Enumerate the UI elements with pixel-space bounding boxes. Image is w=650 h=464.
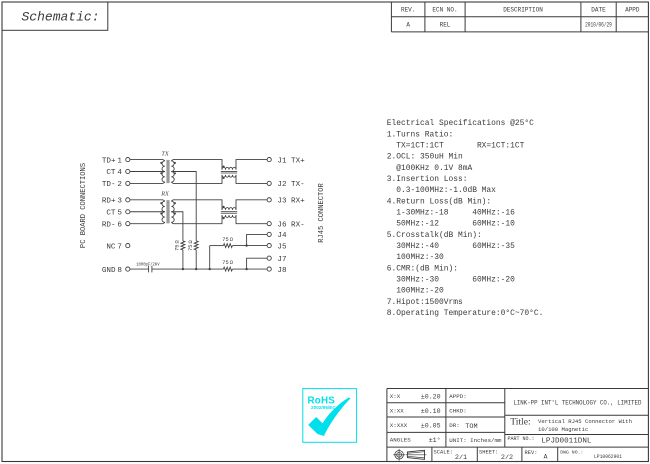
choke L1 phase dots: [223, 166, 225, 180]
transformer T2 (RX) windings and core: [162, 200, 174, 223]
wire transformer secondary bottom to choke: [171, 215, 222, 224]
svg-text:7: 7: [117, 243, 122, 251]
svg-text:J7: J7: [277, 256, 286, 264]
resistor R2 75 Ohm (TX center tap to GND): [194, 241, 198, 269]
svg-text:1-30MHz:-18 40MHz:-16: 1-30MHz:-18 40MHz:-16: [387, 209, 515, 218]
svg-text:Electrical Specifications @25°: Electrical Specifications @25°C: [387, 119, 534, 128]
pin J1 terminal circle: [267, 158, 271, 162]
svg-text:PART NO.:: PART NO.:: [508, 436, 535, 442]
wire choke L2 to pin J3: [236, 200, 267, 210]
svg-text:1.Turns Ratio:: 1.Turns Ratio:: [387, 130, 453, 139]
svg-text:100MHz:-20: 100MHz:-20: [387, 287, 444, 296]
pin J3 label: [277, 198, 305, 206]
svg-text:J8: J8: [277, 267, 287, 275]
svg-text:1000pF/2KV: 1000pF/2KV: [136, 262, 160, 267]
svg-text:75 Ω: 75 Ω: [188, 239, 194, 250]
pin 5 (CT) label: [106, 209, 122, 217]
svg-text:TD-: TD-: [102, 181, 116, 189]
svg-text:0.3-100MHz:-1.0dB Max: 0.3-100MHz:-1.0dB Max: [387, 186, 496, 195]
wire transformer secondary top to choke: [171, 160, 222, 170]
svg-text:±1°: ±1°: [429, 436, 441, 444]
svg-text:REV:: REV:: [525, 450, 538, 456]
svg-text:@100KHz 0.1V 8mA: @100KHz 0.1V 8mA: [387, 164, 473, 173]
pin J6 terminal circle: [267, 222, 271, 226]
svg-text:4: 4: [117, 169, 122, 177]
svg-text:75 Ω: 75 Ω: [222, 260, 233, 266]
pin J3 terminal circle: [267, 198, 271, 202]
svg-text:ANGLES: ANGLES: [390, 437, 411, 444]
svg-text:DESCRIPTION: DESCRIPTION: [503, 7, 543, 14]
sheet cell: [479, 450, 513, 463]
svg-text:DATE: DATE: [591, 7, 606, 14]
svg-text:2/1: 2/1: [455, 454, 467, 462]
svg-text:75 Ω: 75 Ω: [175, 239, 181, 250]
wire choke L1 to pin J2: [236, 175, 267, 184]
resistor R4 75 Ohm (in ground rail to J8): [223, 267, 232, 271]
pin 2 (TD-) label: [102, 181, 123, 189]
svg-text:CT: CT: [106, 169, 116, 177]
resistor R3 75 Ohm (to pins J4/J5): [223, 244, 232, 248]
pin J5 terminal circle: [267, 244, 271, 248]
rev cell: [525, 450, 548, 461]
svg-text:RJ45 CONNECTOR: RJ45 CONNECTOR: [318, 182, 326, 242]
choke L2 phase dots: [223, 206, 225, 220]
svg-text:Title:: Title:: [510, 417, 530, 428]
svg-text:50MHz:-12 60MHz:-10: 50MHz:-12 60MHz:-10: [387, 220, 515, 229]
pin 3 (RD+) label: [102, 198, 123, 206]
resistor R1 75 Ohm (RX center tap to GND): [181, 241, 185, 269]
pin J2 terminal circle: [267, 181, 271, 185]
electrical specifications text block: [387, 119, 544, 318]
svg-text:2: 2: [117, 181, 122, 189]
tolerance values column: [421, 393, 441, 444]
svg-text:Schematic:: Schematic:: [22, 10, 100, 25]
svg-text:RD+: RD+: [102, 198, 116, 206]
pin J5 label: [277, 243, 287, 251]
wire pin to transformer primary top: [130, 199, 163, 201]
svg-text:SCALE:: SCALE:: [434, 450, 453, 456]
pin J4 label: [277, 232, 287, 240]
wire GND pin 8 to capacitor: [130, 268, 149, 270]
wire pin to transformer primary bottom: [130, 223, 163, 225]
pin 3 terminal circle: [126, 198, 130, 202]
svg-text:J5: J5: [277, 243, 287, 251]
svg-text:REL: REL: [440, 22, 451, 29]
svg-text:100MHz:-30: 100MHz:-30: [387, 253, 444, 262]
svg-text:10/100 Magnetic: 10/100 Magnetic: [538, 426, 588, 433]
svg-text:5.Crosstalk(dB Min):: 5.Crosstalk(dB Min):: [387, 231, 482, 240]
approval labels column: [449, 393, 502, 444]
pin J8 terminal circle: [267, 267, 271, 271]
revision table row A: [406, 22, 611, 29]
svg-text:1: 1: [117, 157, 122, 165]
pin J6 label: [277, 221, 304, 229]
svg-text:LPJD0011DNL: LPJD0011DNL: [541, 438, 592, 446]
pin 1 (TD+) label: [102, 157, 123, 165]
wire resistor R3 to pin J5: [232, 245, 267, 247]
wire choke L2 to pin J6: [236, 215, 267, 224]
wire pin to transformer primary top: [130, 159, 163, 161]
pin 8 terminal circle: [126, 267, 130, 271]
wire TX secondary center tap to node: [171, 172, 196, 241]
svg-text:TX=1CT:1CT RX=1CT:1CT: TX=1CT:1CT RX=1CT:1CT: [387, 142, 525, 151]
pin 7 terminal circle: [126, 244, 130, 248]
svg-text:LP10062901: LP10062901: [594, 454, 622, 460]
common-mode choke L2 (RX) windings and core: [221, 208, 237, 218]
svg-text:J6 RX-: J6 RX-: [277, 221, 304, 229]
svg-text:ECN NO.: ECN NO.: [432, 7, 457, 14]
svg-text:TX: TX: [161, 150, 168, 157]
svg-text:30MHz:-40 60MHz:-35: 30MHz:-40 60MHz:-35: [387, 242, 515, 251]
transformer T2 phase dots: [160, 202, 176, 215]
wire pin to transformer primary center tap: [130, 171, 165, 173]
svg-text:CHKD:: CHKD:: [449, 408, 466, 415]
pin 4 terminal circle: [126, 169, 130, 173]
svg-text:2002/95/EC: 2002/95/EC: [311, 405, 336, 410]
pin 6 (RD-) label: [102, 221, 123, 229]
svg-text:J4: J4: [277, 232, 287, 240]
svg-text:GND: GND: [102, 267, 116, 275]
svg-text:±0.05: ±0.05: [421, 422, 441, 429]
svg-text:UNIT: Inches/mm: UNIT: Inches/mm: [449, 437, 502, 444]
title block grid lines: [387, 389, 649, 462]
svg-text:J2 TX-: J2 TX-: [277, 181, 304, 189]
svg-text:30MHz:-30 60MHz:-20: 30MHz:-30 60MHz:-20: [387, 275, 515, 284]
dwg no cell: [560, 449, 622, 460]
third-angle projection symbol: [393, 449, 426, 461]
pin 4 (CT) label: [106, 169, 122, 177]
RoHS checkmark: [308, 398, 350, 437]
wire choke L1 to pin J1: [236, 160, 267, 170]
wire pin to transformer primary bottom: [130, 182, 163, 184]
RoHS logo box: [303, 389, 357, 443]
svg-text:X:XXX: X:XXX: [390, 422, 408, 429]
svg-text:2010/06/29: 2010/06/29: [585, 22, 612, 29]
svg-text:2.OCL: 350uH Min: 2.OCL: 350uH Min: [387, 153, 463, 162]
transformer T1 (TX) windings and core: [162, 160, 174, 183]
capacitor C1 1000pF/2KV plates: [149, 266, 152, 273]
svg-text:Vertical RJ45 Connector With: Vertical RJ45 Connector With: [538, 418, 632, 425]
pin 5 terminal circle: [126, 210, 130, 214]
svg-text:LINK-PP INT'L TECHNOLOGY CO.,: LINK-PP INT'L TECHNOLOGY CO., LIMITED: [513, 399, 642, 406]
pin J1 label: [277, 157, 305, 165]
ground rail wire capacitor to resistor R4: [152, 268, 224, 270]
svg-text:A: A: [544, 453, 548, 460]
svg-text:DR:: DR:: [449, 422, 459, 429]
svg-text:±0.10: ±0.10: [421, 408, 441, 415]
wire left leg of resistor R3 down to ground rail: [209, 246, 211, 270]
pin 6 terminal circle: [126, 222, 130, 226]
tolerance labels column: [390, 393, 411, 444]
pin 2 terminal circle: [126, 181, 130, 185]
svg-text:CT: CT: [106, 209, 116, 217]
pin J8 label: [277, 267, 287, 275]
svg-text:±0.20: ±0.20: [421, 393, 441, 400]
transformer T1 phase dots: [160, 162, 176, 175]
svg-text:DWG NO.:: DWG NO.:: [560, 449, 583, 455]
svg-text:APPD: APPD: [625, 7, 640, 14]
svg-text:REV.: REV.: [401, 7, 415, 14]
svg-text:TOM: TOM: [465, 423, 477, 431]
wire transformer secondary top to choke: [171, 200, 222, 210]
svg-text:75 Ω: 75 Ω: [222, 237, 233, 243]
svg-text:X:X: X:X: [390, 393, 401, 400]
scale cell: [434, 450, 468, 463]
revision table header text: [401, 7, 640, 14]
pin 1 terminal circle: [126, 158, 130, 162]
pin J7 label: [277, 256, 286, 264]
svg-text:3: 3: [117, 198, 122, 206]
svg-text:2/2: 2/2: [501, 454, 513, 462]
svg-text:SHEET:: SHEET:: [479, 450, 498, 456]
pin 8 (GND) label: [102, 267, 123, 275]
svg-text:TD+: TD+: [102, 157, 116, 165]
wire transformer secondary bottom to choke: [171, 175, 222, 184]
wire pin to transformer primary center tap: [130, 211, 165, 213]
svg-text:J1 TX+: J1 TX+: [277, 157, 305, 165]
svg-text:6.CMR:(dB Min):: 6.CMR:(dB Min):: [387, 264, 458, 273]
junction dots on ground rail and J5 node: [182, 244, 248, 270]
svg-text:PC BOARD CONNECTIONS: PC BOARD CONNECTIONS: [80, 163, 88, 248]
svg-text:8: 8: [117, 267, 122, 275]
wire branch to pin J4: [247, 234, 268, 245]
svg-text:8.Operating Temperature:0°C~70: 8.Operating Temperature:0°C~70°C.: [387, 309, 544, 318]
svg-text:6: 6: [117, 221, 122, 229]
pin J4 terminal circle: [267, 232, 271, 236]
revision table: [391, 2, 648, 32]
svg-text:5: 5: [117, 209, 122, 217]
wire branch to pin J7: [247, 258, 268, 269]
svg-text:3.Insertion Loss:: 3.Insertion Loss:: [387, 175, 468, 184]
svg-text:J3 RX+: J3 RX+: [277, 198, 305, 206]
wire RX secondary center tap to node: [171, 212, 183, 241]
schematic title box: [2, 2, 108, 30]
svg-text:APPD:: APPD:: [449, 393, 466, 400]
svg-text:4.Return Loss(dB Min):: 4.Return Loss(dB Min):: [387, 197, 491, 206]
pin J7 terminal circle: [267, 256, 271, 260]
common-mode choke L1 (TX) windings and core: [221, 167, 237, 177]
pin 7 (NC) label: [106, 243, 122, 251]
pin J2 label: [277, 181, 304, 189]
svg-text:A: A: [406, 22, 410, 29]
wire to resistor R3: [210, 245, 224, 247]
svg-text:X:XX: X:XX: [390, 408, 404, 415]
svg-text:NC: NC: [106, 243, 116, 251]
ground rail wire resistor R4 to pin J8: [232, 268, 267, 270]
svg-text:RD-: RD-: [102, 221, 116, 229]
svg-text:7.Hipot:1500Vrms: 7.Hipot:1500Vrms: [387, 298, 463, 307]
svg-text:RX: RX: [160, 191, 169, 198]
